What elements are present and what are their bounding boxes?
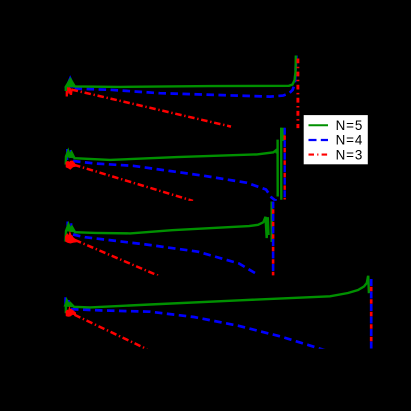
svg-text:N=4: N=4 [336,133,364,148]
svg-text:N=5: N=5 [336,118,364,133]
svg-text:N=3: N=3 [336,147,364,162]
